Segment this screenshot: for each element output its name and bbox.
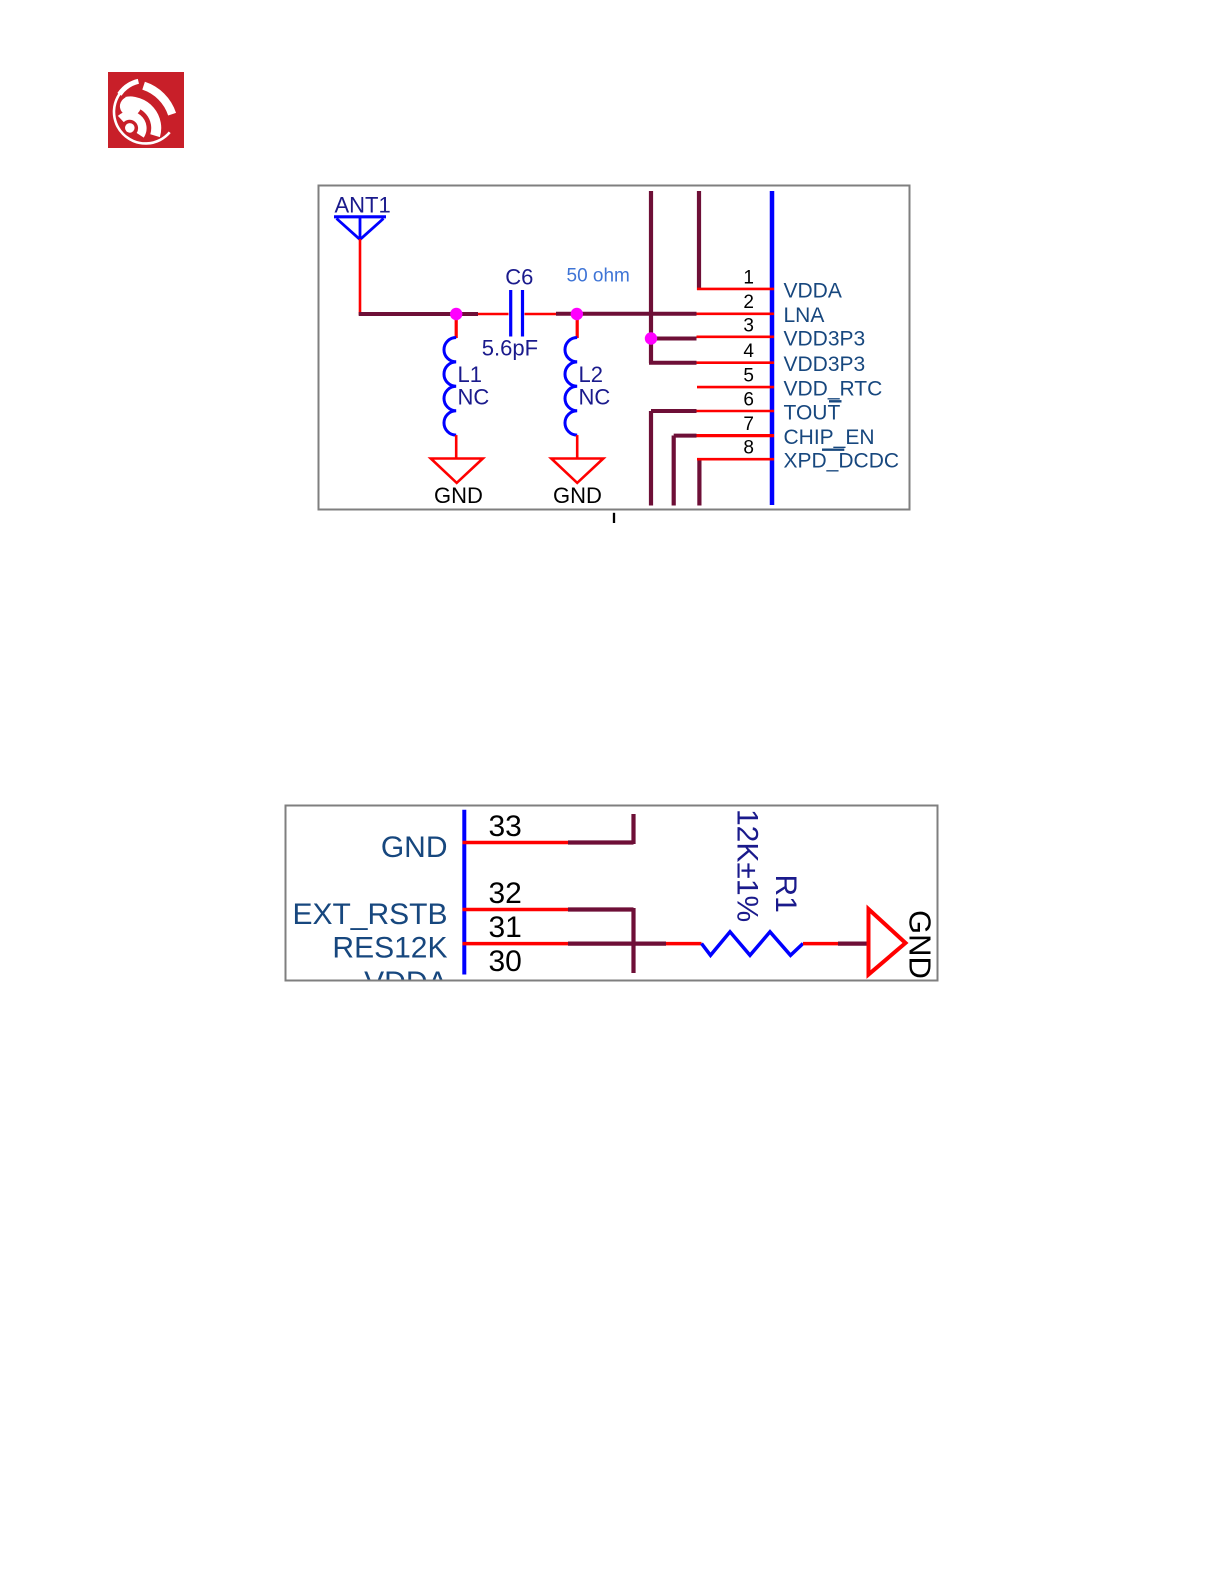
svg-text:VDD3P3: VDD3P3 [784,327,866,350]
svg-text:XPD_DCDC: XPD_DCDC [784,450,900,473]
svg-text:5: 5 [743,366,754,387]
svg-text:GND: GND [903,910,938,979]
svg-text:VDDA: VDDA [784,279,842,302]
svg-text:LNA: LNA [784,304,825,327]
svg-text:VDD_RTC: VDD_RTC [784,378,883,401]
svg-text:4: 4 [743,341,754,362]
svg-text:VDD3P3: VDD3P3 [784,353,866,376]
svg-text:8: 8 [743,438,754,459]
svg-text:GND: GND [434,483,483,508]
svg-text:6: 6 [743,390,754,411]
svg-text:7: 7 [743,414,754,435]
svg-text:GND: GND [553,483,602,508]
svg-text:12K±1%: 12K±1% [731,809,764,922]
svg-text:RES12K: RES12K [332,932,447,965]
svg-text:L1: L1 [458,362,482,387]
svg-text:R1: R1 [769,875,802,913]
svg-text:50 ohm: 50 ohm [567,265,630,286]
svg-text:ANT1: ANT1 [335,193,391,218]
svg-text:32: 32 [489,877,522,910]
svg-text:33: 33 [489,810,522,843]
svg-text:1: 1 [743,267,754,288]
svg-text:NC: NC [458,384,490,409]
svg-text:CHIP_EN: CHIP_EN [784,426,875,449]
svg-text:NC: NC [579,384,611,409]
svg-text:L2: L2 [579,362,603,387]
svg-text:5.6pF: 5.6pF [482,335,538,360]
svg-text:C6: C6 [505,264,533,289]
svg-text:TOUT: TOUT [784,402,841,425]
svg-text:30: 30 [489,945,522,978]
svg-text:GND: GND [381,831,448,864]
svg-text:EXT_RSTB: EXT_RSTB [292,898,447,931]
svg-text:VDDA: VDDA [364,966,447,999]
svg-text:31: 31 [489,911,522,944]
svg-text:2: 2 [743,292,754,313]
svg-text:3: 3 [743,315,754,336]
